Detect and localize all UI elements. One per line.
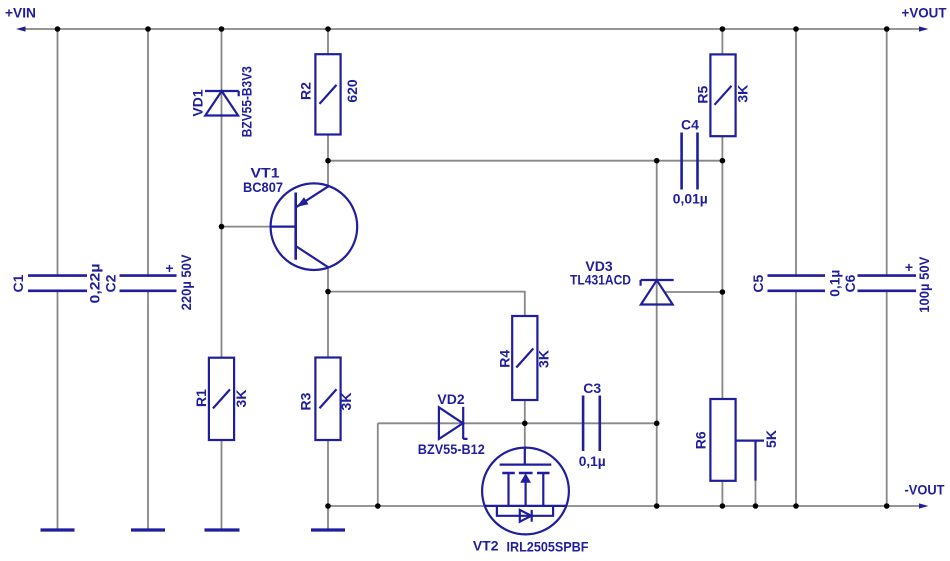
svg-text:C1: C1 [10, 274, 26, 292]
svg-text:620: 620 [344, 79, 360, 103]
svg-text:100µ 50V: 100µ 50V [916, 256, 932, 313]
svg-text:IRL2505SPBF: IRL2505SPBF [507, 539, 589, 555]
svg-text:VT2: VT2 [473, 538, 499, 554]
svg-text:3K: 3K [233, 390, 249, 408]
svg-text:C3: C3 [583, 380, 601, 396]
svg-text:3K: 3K [338, 393, 354, 411]
svg-text:TL431ACD: TL431ACD [570, 272, 631, 288]
svg-text:C4: C4 [681, 117, 699, 133]
svg-text:R3: R3 [298, 392, 314, 410]
svg-text:0,22µ: 0,22µ [86, 264, 102, 304]
svg-text:0,01µ: 0,01µ [673, 191, 708, 207]
svg-text:+VIN: +VIN [5, 5, 36, 21]
svg-text:3K: 3K [734, 85, 750, 103]
svg-text:BZV55-B3V3: BZV55-B3V3 [239, 66, 255, 137]
svg-text:R1: R1 [193, 389, 209, 407]
svg-text:R4: R4 [497, 350, 513, 368]
svg-text:R5: R5 [695, 86, 711, 104]
svg-text:C2: C2 [103, 274, 119, 292]
svg-text:R6: R6 [693, 431, 709, 449]
svg-text:0,1µ: 0,1µ [579, 453, 606, 469]
svg-text:-VOUT: -VOUT [905, 482, 945, 498]
svg-text:R2: R2 [298, 82, 314, 100]
svg-text:C5: C5 [750, 275, 766, 293]
svg-text:3K: 3K [536, 350, 552, 368]
svg-text:220µ 50V: 220µ 50V [178, 254, 194, 311]
svg-text:VD1: VD1 [190, 89, 206, 116]
svg-text:BC807: BC807 [243, 179, 283, 195]
svg-text:0,1µ: 0,1µ [827, 270, 843, 297]
svg-text:+: + [905, 259, 913, 275]
svg-text:C6: C6 [842, 274, 858, 292]
svg-text:BZV55-B12: BZV55-B12 [418, 441, 485, 457]
svg-text:5K: 5K [763, 430, 779, 448]
svg-text:+: + [165, 260, 173, 276]
svg-text:+VOUT: +VOUT [902, 5, 947, 21]
svg-text:VD2: VD2 [437, 391, 464, 407]
